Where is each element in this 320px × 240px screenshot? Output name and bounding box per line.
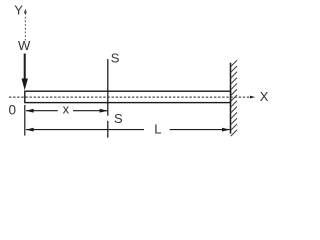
beam outline [25, 91, 231, 102]
svg-text:X: X [260, 89, 269, 104]
fixed wall line [230, 63, 232, 134]
Y axis dashed line [24, 13, 26, 41]
centerline (X axis, dashed) [9, 96, 251, 98]
svg-text:S: S [114, 111, 123, 126]
Y axis arrowhead [24, 9, 27, 14]
section line S-S (lower segment) [107, 121, 109, 138]
load arrow W head [22, 79, 28, 91]
load arrow W shaft [24, 54, 26, 81]
wall hatching [231, 60, 237, 136]
extension line at beam left end [24, 105, 26, 136]
svg-text:L: L [154, 122, 161, 137]
svg-text:Y: Y [14, 2, 23, 17]
dimension L: left segment [26, 129, 144, 131]
dimension x: left arrowhead [26, 109, 34, 113]
dimension L: right arrowhead [222, 128, 230, 132]
X axis arrowhead [250, 96, 255, 99]
dimension x: left segment [26, 110, 58, 112]
svg-text:0: 0 [9, 102, 17, 117]
dimension L: left arrowhead [26, 128, 34, 132]
dimension x: right arrowhead [100, 109, 108, 113]
svg-text:x: x [63, 102, 70, 117]
dimension L: right segment [170, 129, 230, 131]
svg-text:W: W [18, 38, 31, 53]
svg-text:S: S [111, 50, 120, 65]
dimension x: right segment [73, 110, 107, 112]
section line S-S (upper segment) [107, 59, 109, 116]
